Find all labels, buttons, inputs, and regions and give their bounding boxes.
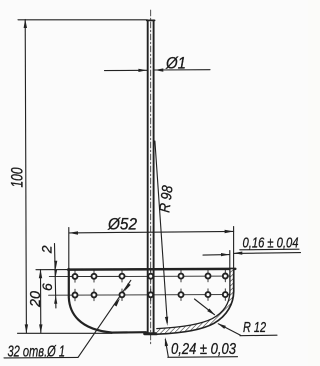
capillary stem tube left wall	[147, 20, 149, 332]
bulb rim top edge	[68, 268, 235, 271]
node arrow 20 bottom	[39, 324, 42, 333]
bulb section band hatching	[157, 269, 234, 334]
svg-text:0,16 ± 0,04: 0,16 ± 0,04	[243, 235, 299, 252]
capillary stem top cap	[147, 19, 155, 21]
node arrow 100 top	[24, 19, 27, 28]
node arrow D52 right	[225, 230, 234, 233]
wire 0,16 underline	[240, 248, 299, 251]
node arrow 2 down	[54, 261, 57, 270]
svg-text:Ø52: Ø52	[107, 215, 137, 234]
node arrow D52 left	[69, 231, 78, 234]
wire bottom extension line	[18, 332, 113, 334]
node arrow 0,16 left	[221, 253, 230, 256]
node arrow R98	[165, 317, 168, 326]
wire leader R98	[155, 141, 167, 323]
hole H1 row1	[75, 270, 225, 301]
node arrow 20 top	[39, 269, 42, 278]
wire 0,24 underline	[168, 356, 238, 359]
wire dimension line D52	[69, 231, 234, 233]
svg-text:100: 100	[7, 167, 26, 187]
capillary stem bottom cap	[145, 332, 157, 335]
wire dimension line D1 left	[105, 69, 148, 71]
wire dimension line 20	[40, 270, 42, 334]
node arrow hole upper	[124, 283, 130, 292]
bulb left wall and bottom outline	[69, 269, 146, 333]
wire dimension line 2 and 6	[55, 244, 56, 309]
svg-text:Ø1: Ø1	[165, 54, 186, 73]
wire dimension line D1 right	[155, 69, 210, 71]
node arrow corner inner	[207, 309, 215, 316]
node arrow D1 left	[138, 69, 147, 72]
svg-text:R 98: R 98	[156, 184, 176, 213]
node arrow 0,16 right	[234, 252, 243, 255]
svg-text:32 отв.Ø 1: 32 отв.Ø 1	[8, 343, 66, 360]
wire rim left extension	[36, 269, 70, 271]
node arrow hole lower	[114, 298, 120, 306]
wire leader 0,24	[165, 340, 168, 357]
svg-text:20: 20	[27, 290, 44, 308]
node arrow 6 upper	[54, 270, 57, 277]
svg-text:0,24 ± 0,03: 0,24 ± 0,03	[171, 341, 236, 358]
svg-text:6: 6	[39, 283, 55, 291]
wire hole row 2 centerline	[49, 294, 231, 297]
wire D52 left extension line	[68, 228, 70, 271]
wire R12 underline	[240, 334, 277, 337]
node arrow R12	[218, 323, 226, 329]
capillary stem tube right wall	[153, 20, 155, 332]
svg-text:2: 2	[39, 245, 55, 254]
wire top extension line	[18, 19, 147, 21]
svg-text:R 12: R 12	[243, 319, 266, 336]
wire D52 right extension line	[233, 227, 235, 270]
wire leader 32 holes	[78, 280, 131, 357]
node arrow 6 lower	[54, 295, 57, 303]
wire corner thickness arrow line	[195, 299, 215, 315]
wire 0,16 inner extension line	[229, 251, 231, 271]
wire leader R12	[218, 324, 240, 335]
wire 0,16 left arrow line	[203, 254, 229, 257]
node arrow 100 bottom	[25, 324, 28, 333]
wire 32 holes underline	[4, 356, 78, 359]
wire hole row 1 centerline	[49, 275, 230, 278]
node arrow D1 right	[155, 68, 164, 71]
wire 0,16 right arrow line	[234, 252, 301, 255]
capillary stem axis centerline	[150, 10, 152, 346]
wire dimension line 100	[25, 20, 26, 334]
bulb right wall inner edge	[157, 270, 230, 329]
bulb right wall outer edge	[157, 269, 234, 334]
node arrow 0,24	[165, 337, 168, 346]
